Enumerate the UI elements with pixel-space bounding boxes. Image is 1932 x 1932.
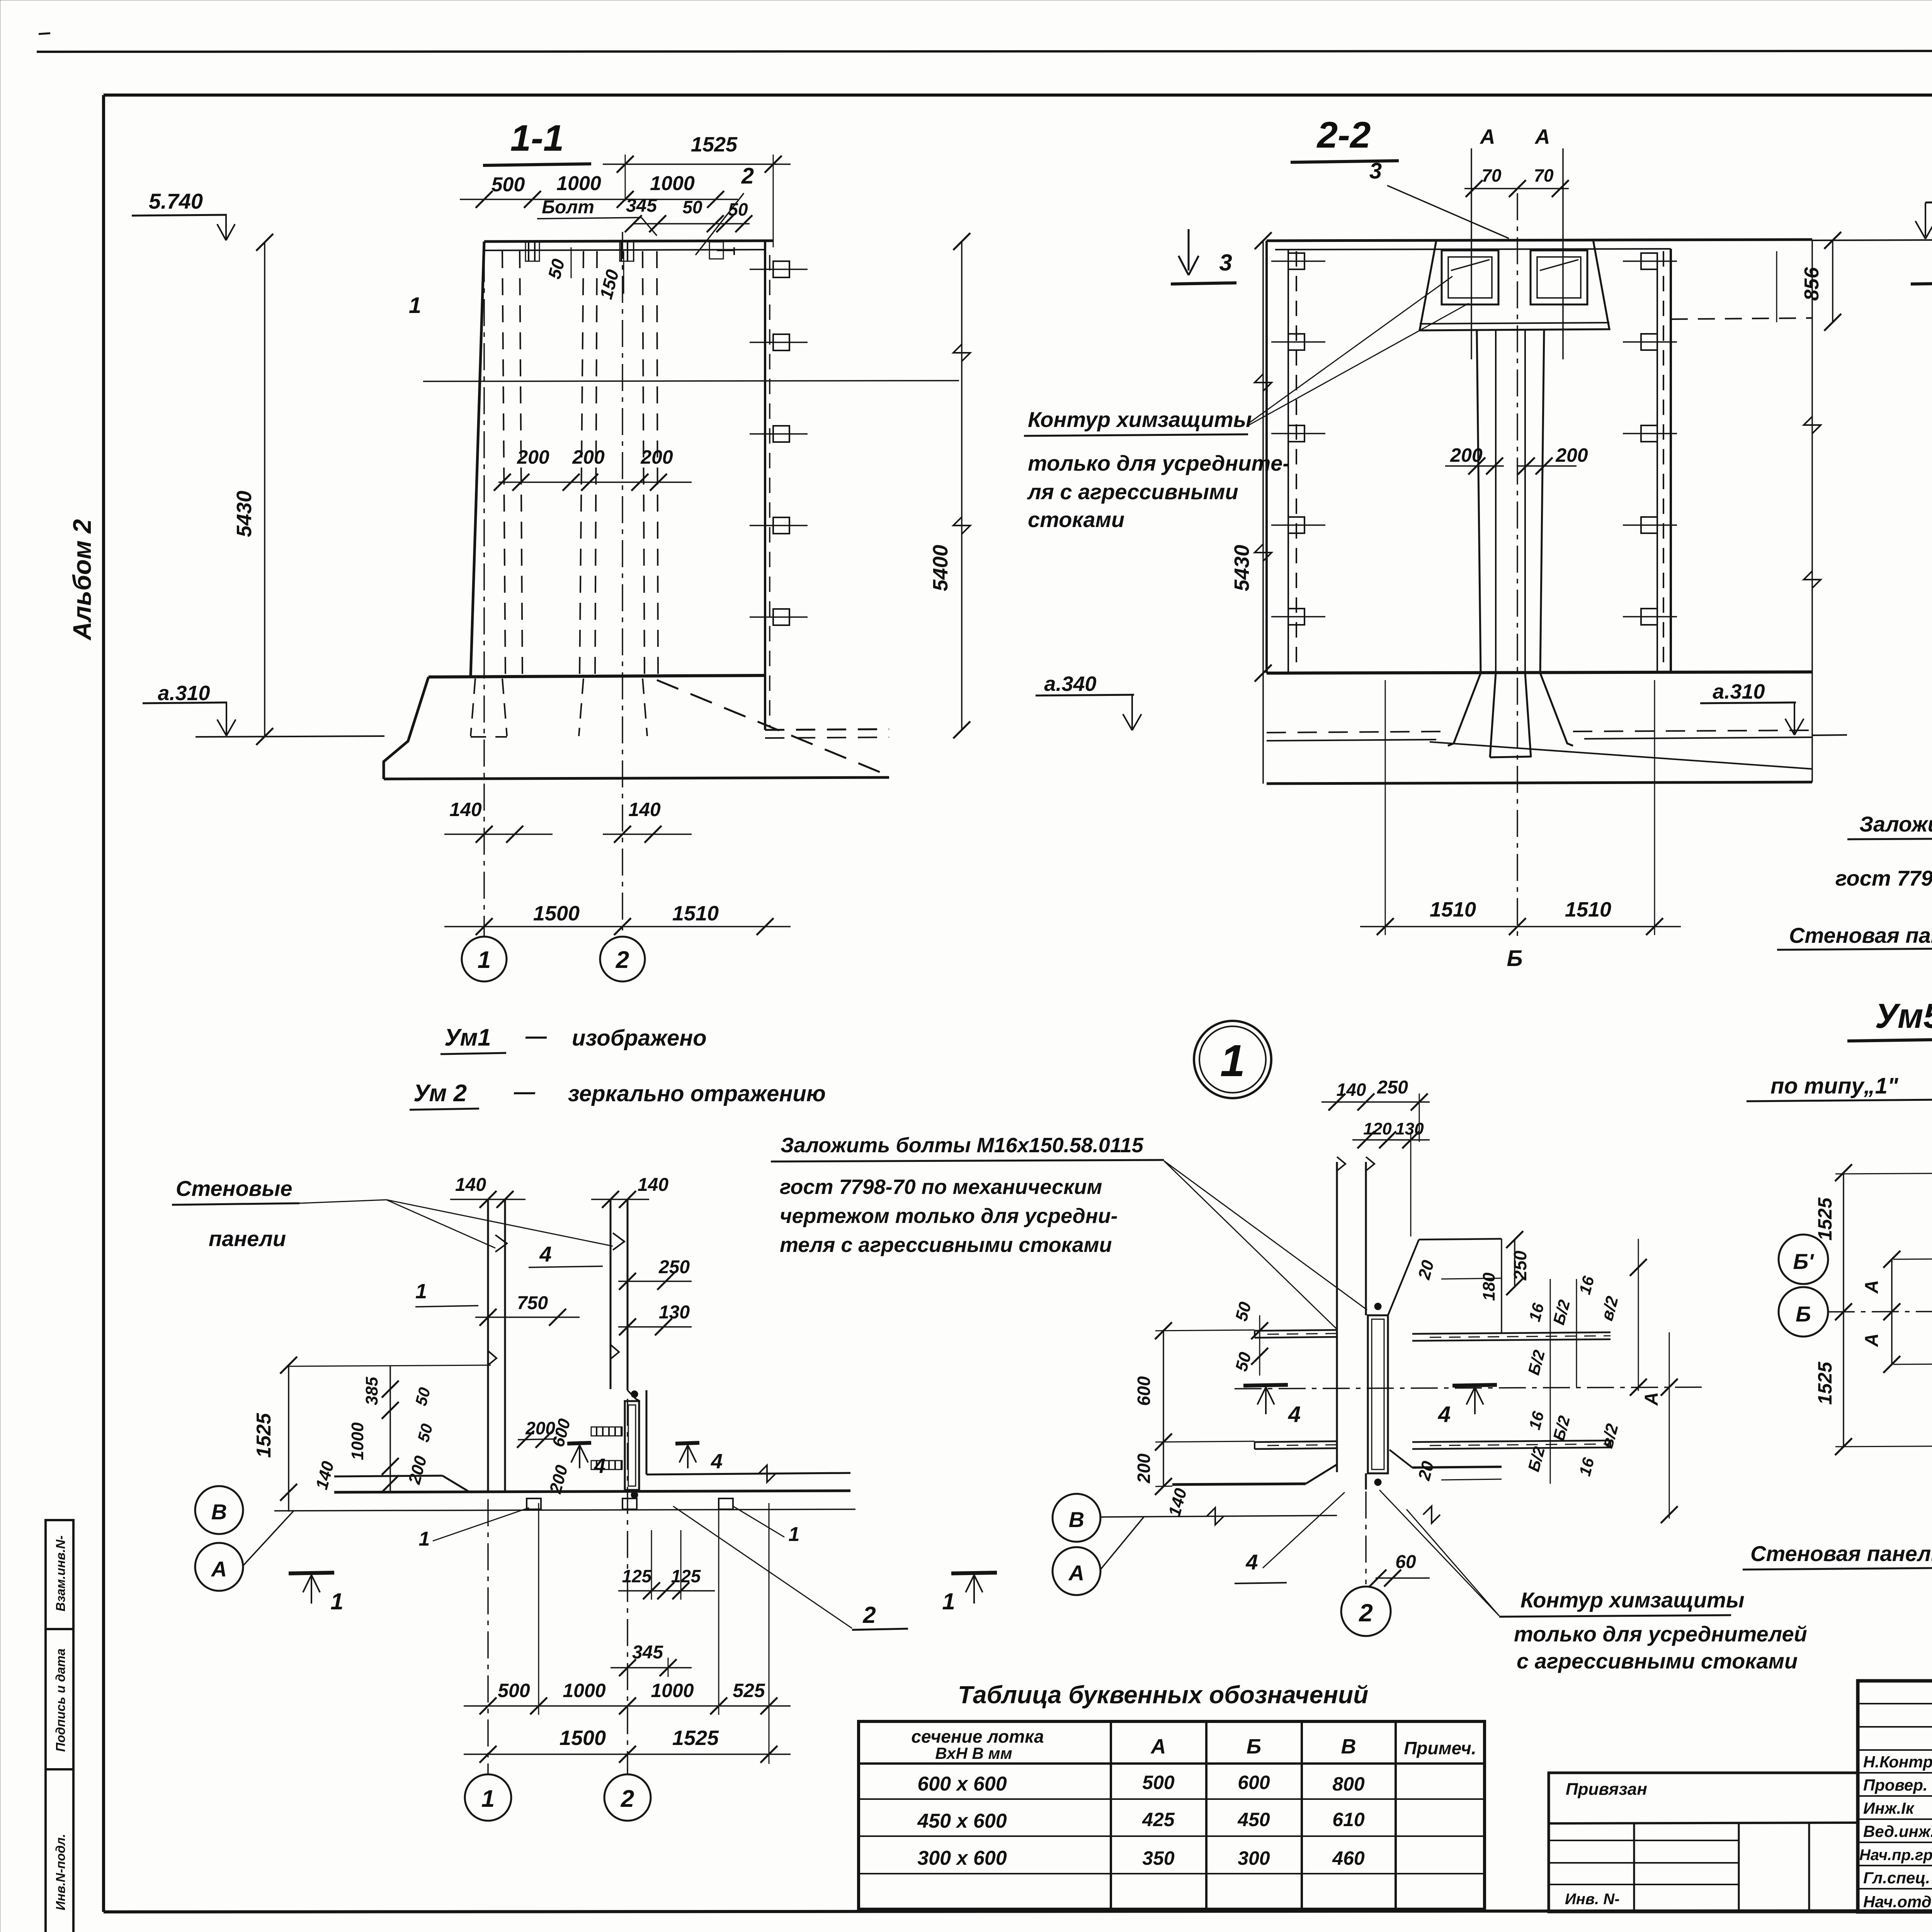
svg-text:Подпись и дата: Подпись и дата	[53, 1648, 68, 1752]
svg-text:610: 610	[1332, 1809, 1365, 1830]
svg-text:70: 70	[1481, 165, 1502, 185]
svg-text:1000: 1000	[651, 1680, 694, 1701]
svg-text:250: 250	[1377, 1077, 1408, 1098]
svg-text:1525: 1525	[253, 1413, 275, 1458]
svg-text:Б: Б	[1247, 1735, 1261, 1758]
svg-text:изображено: изображено	[572, 1026, 707, 1051]
svg-text:125: 125	[622, 1566, 652, 1586]
svg-text:600 х 600: 600 х 600	[917, 1773, 1007, 1795]
dim А А	[1891, 1259, 1893, 1364]
left wall outline (sloped)	[471, 241, 484, 676]
circles В А	[1053, 1494, 1100, 1542]
svg-text:5430: 5430	[1230, 545, 1253, 591]
svg-text:Стеновая панель: Стеновая панель	[1750, 1541, 1932, 1566]
svg-text:Ум 2: Ум 2	[413, 1080, 467, 1107]
right wall elevation w/ notches	[764, 241, 766, 730]
svg-text:250: 250	[658, 1257, 690, 1277]
svg-text:525: 525	[733, 1680, 765, 1701]
svg-text:Провер.: Провер.	[1863, 1776, 1928, 1794]
right wall panel	[610, 1199, 612, 1389]
dim 5430 vertical	[264, 242, 265, 737]
svg-text:4: 4	[539, 1242, 551, 1266]
svg-text:ВхН В мм: ВхН В мм	[935, 1744, 1012, 1762]
anchor hatched bars	[591, 1427, 622, 1436]
svg-text:3: 3	[1369, 158, 1382, 184]
central column	[1477, 330, 1481, 673]
svg-text:800: 800	[1332, 1773, 1365, 1795]
svg-text:1525: 1525	[672, 1726, 719, 1750]
svg-text:70: 70	[1534, 165, 1554, 185]
dim 5430 left vertical	[1262, 241, 1264, 784]
svg-text:1: 1	[789, 1523, 800, 1546]
svg-text:200: 200	[1134, 1453, 1154, 1483]
svg-text:1500: 1500	[560, 1726, 606, 1750]
svg-text:300 х 600: 300 х 600	[917, 1847, 1007, 1869]
svg-text:А: А	[1480, 125, 1495, 148]
svg-text:Взам.инв.N-: Взам.инв.N-	[53, 1536, 68, 1612]
svg-text:Н.Контр.: Н.Контр.	[1863, 1753, 1932, 1771]
svg-text:А: А	[1641, 1392, 1662, 1406]
axis dash-dot horizontal	[1235, 1387, 1702, 1389]
svg-text:1525: 1525	[1814, 1361, 1836, 1405]
svg-text:Б: Б	[1507, 946, 1522, 971]
svg-text:1000: 1000	[650, 172, 695, 195]
dim 1500 / 1510	[444, 926, 791, 927]
signature area rows	[1858, 1703, 1932, 1704]
svg-text:1: 1	[419, 1528, 430, 1550]
svg-text:В: В	[211, 1500, 227, 1524]
svg-text:Стеновая панель: Стеновая панель	[1789, 923, 1932, 947]
svg-text:А: А	[211, 1557, 227, 1581]
svg-text:Контур химзащиты: Контур химзащиты	[1520, 1588, 1745, 1612]
dim row 500/1000/1000	[460, 199, 738, 200]
svg-text:1525: 1525	[1814, 1197, 1836, 1240]
svg-text:2: 2	[741, 163, 754, 189]
axis Б	[1828, 1311, 1932, 1312]
svg-text:a.340: a.340	[1044, 672, 1096, 696]
svg-text:Стеновые: Стеновые	[176, 1176, 292, 1201]
svg-text:1000: 1000	[563, 1680, 605, 1701]
svg-text:1: 1	[478, 947, 491, 973]
svg-text:А: А	[1150, 1735, 1166, 1758]
detail 1 big circle	[1194, 1021, 1271, 1098]
left dim 1525 vertical	[288, 1365, 289, 1512]
svg-text:300: 300	[1238, 1847, 1270, 1869]
svg-text:1510: 1510	[1565, 898, 1611, 921]
svg-text:гост 7798-70 по механическим: гост 7798-70 по механическим чертежам	[1835, 866, 1932, 890]
svg-text:200: 200	[572, 446, 605, 468]
foundation	[429, 675, 765, 677]
section mark 3 (left, down arrow)	[1188, 229, 1190, 270]
svg-text:1510: 1510	[1430, 898, 1476, 921]
top slab	[1267, 240, 1812, 241]
svg-text:Привязан: Привязан	[1566, 1780, 1647, 1799]
lower left flare	[1172, 1484, 1306, 1485]
svg-text:140: 140	[455, 1175, 486, 1195]
svg-text:Таблица буквенных обозначе: Таблица буквенных обозначений	[958, 1681, 1368, 1709]
svg-text:1525: 1525	[691, 133, 738, 156]
svg-text:2: 2	[616, 947, 629, 973]
dim 5400 vertical	[961, 241, 963, 730]
upper flare	[1388, 1240, 1419, 1315]
axis line + plates	[274, 1509, 855, 1511]
top dim line of plan	[289, 1365, 491, 1366]
foundation 2-2	[1267, 672, 1812, 673]
left wall with notches	[1265, 241, 1268, 673]
top slab	[484, 241, 773, 241]
gate slots	[1442, 250, 1498, 304]
circled 2 below	[1365, 1492, 1367, 1584]
svg-text:140: 140	[628, 799, 661, 820]
cut marks 4 (600 bars)	[567, 1443, 591, 1444]
svg-text:5.740: 5.740	[149, 189, 203, 213]
svg-text:140: 140	[449, 799, 482, 820]
flag marks 4	[495, 1235, 507, 1252]
svg-text:140: 140	[1337, 1080, 1366, 1100]
right tall reference line	[1811, 240, 1813, 782]
svg-text:3: 3	[1219, 250, 1232, 276]
svg-text:стоками: стоками	[1028, 507, 1124, 532]
svg-text:А: А	[1534, 125, 1550, 148]
dim 1510 1510 bottom	[1360, 926, 1681, 927]
svg-text:1510: 1510	[672, 902, 719, 925]
svg-text:ля с агрессивными: ля с агрессивными	[1027, 480, 1238, 504]
svg-text:1: 1	[409, 293, 421, 318]
circles В А	[195, 1486, 243, 1534]
svg-text:Инв.N-подл.: Инв.N-подл.	[53, 1834, 68, 1910]
svg-text:В: В	[1341, 1735, 1356, 1758]
svg-text:140: 140	[638, 1175, 668, 1195]
svg-text:1: 1	[481, 1786, 495, 1812]
central divider head (trapezoid)	[1420, 240, 1609, 330]
svg-text:Ум5: Ум5	[1875, 997, 1932, 1036]
sheet frame	[104, 94, 1932, 97]
wall dashed form lines	[502, 251, 505, 675]
svg-text:Гл.спец.: Гл.спец.	[1863, 1869, 1930, 1887]
svg-text:Заложить болты М16х150.58.01: Заложить болты М16х150.58.0115	[781, 1134, 1144, 1157]
svg-text:Инж.Iк: Инж.Iк	[1863, 1799, 1915, 1817]
svg-text:120: 120	[1363, 1119, 1392, 1138]
svg-text:по типу„1": по типу„1"	[1770, 1073, 1899, 1099]
svg-text:200: 200	[640, 446, 673, 468]
svg-text:Заложить болты М16х150.58.01: Заложить болты М16х150.58.0115	[1859, 812, 1932, 836]
svg-text:500: 500	[492, 173, 525, 196]
left margin stamp boxes	[46, 1520, 73, 1932]
svg-text:180: 180	[1480, 1272, 1498, 1301]
dim row 1500/1525	[464, 1753, 791, 1755]
svg-text:1: 1	[415, 1280, 427, 1303]
svg-text:4: 4	[594, 1454, 605, 1478]
svg-text:125: 125	[671, 1566, 701, 1586]
svg-text:460: 460	[1332, 1847, 1365, 1869]
svg-text:a.310: a.310	[158, 682, 210, 705]
svg-text:А: А	[1862, 1333, 1882, 1347]
paper top edge line	[37, 51, 1932, 52]
svg-text:Примеч.: Примеч.	[1404, 1738, 1476, 1758]
svg-text:А: А	[1862, 1280, 1882, 1294]
dims 16 Б/2 В/2 right cluster	[1550, 1279, 1551, 1387]
svg-text:2: 2	[621, 1786, 634, 1812]
svg-text:зеркально отражению: зеркально отражению	[568, 1081, 826, 1106]
svg-text:600: 600	[1134, 1376, 1154, 1406]
svg-text:450 х 600: 450 х 600	[917, 1810, 1007, 1832]
left channel walls	[1255, 1330, 1337, 1331]
svg-text:500: 500	[498, 1680, 530, 1701]
svg-text:60: 60	[1395, 1552, 1416, 1572]
svg-text:1: 1	[330, 1588, 343, 1614]
svg-text:4: 4	[1438, 1402, 1451, 1427]
svg-text:5430: 5430	[233, 491, 256, 537]
svg-text:В: В	[1069, 1507, 1084, 1532]
axis circles 1 2	[487, 1499, 489, 1774]
svg-text:чертежом только для усред: чертежом только для усредни-	[780, 1204, 1118, 1228]
top-left small mark	[39, 33, 50, 34]
svg-text:теля с агрессивными стокам: теля с агрессивными стоками	[780, 1233, 1112, 1257]
right wall with notches	[1670, 249, 1672, 673]
svg-text:250: 250	[1510, 1250, 1530, 1281]
svg-text:Болт: Болт	[542, 197, 594, 218]
stacked rotated dims	[389, 1366, 391, 1492]
svg-text:гост 7798-70 по механическим: гост 7798-70 по механическим	[780, 1175, 1102, 1199]
svg-text:4: 4	[1288, 1402, 1301, 1427]
svg-text:385: 385	[362, 1377, 381, 1405]
axis lines + circles 1 2	[483, 255, 485, 937]
svg-text:200: 200	[1450, 444, 1483, 466]
foundation dashed under walls	[471, 679, 475, 736]
center axis	[1517, 193, 1518, 937]
svg-text:Нач.отд.: Нач.отд.	[1863, 1893, 1932, 1911]
svg-text:2-2: 2-2	[1316, 114, 1371, 156]
svg-text:4: 4	[711, 1450, 723, 1473]
cut mark 1 right	[951, 1573, 997, 1573]
embedded plates on slab	[526, 242, 539, 261]
dim 1525/1525 left	[1843, 1173, 1844, 1447]
svg-text:600: 600	[1238, 1772, 1270, 1793]
svg-text:только для усреднителей: только для усреднителей	[1514, 1622, 1807, 1646]
wall panel verticals	[1336, 1162, 1338, 1472]
svg-text:50: 50	[682, 197, 702, 217]
cut marks 4	[1243, 1385, 1288, 1386]
svg-text:—: —	[525, 1024, 547, 1048]
plan walls	[334, 1491, 850, 1492]
left dim chain 600/200	[1163, 1331, 1164, 1486]
svg-text:сечение лотка: сечение лотка	[911, 1726, 1044, 1747]
svg-text:—: —	[514, 1080, 536, 1104]
svg-text:350: 350	[1142, 1847, 1175, 1869]
svg-text:500: 500	[1142, 1772, 1175, 1793]
table grid	[859, 1721, 1485, 1909]
svg-text:панели: панели	[209, 1226, 286, 1251]
svg-text:450: 450	[1237, 1809, 1270, 1830]
svg-text:750: 750	[517, 1293, 548, 1313]
svg-text:a.310: a.310	[1713, 680, 1765, 703]
svg-text:130: 130	[659, 1302, 690, 1323]
svg-text:А: А	[1068, 1561, 1084, 1585]
svg-text:5400: 5400	[929, 545, 952, 591]
svg-text:Контур химзащиты: Контур химзащиты	[1028, 407, 1252, 432]
Привязан box	[1549, 1773, 1858, 1912]
svg-text:345: 345	[626, 196, 657, 216]
lower right flare	[1412, 1467, 1502, 1468]
svg-text:425: 425	[1142, 1809, 1175, 1830]
title block outer	[1858, 1681, 1932, 1912]
svg-text:200: 200	[517, 446, 549, 468]
dim 856 right	[1832, 240, 1833, 322]
svg-text:Альбом 2: Альбом 2	[68, 519, 96, 641]
svg-text:4: 4	[1245, 1550, 1258, 1574]
svg-text:Ум1: Ум1	[444, 1024, 491, 1051]
svg-text:Вед.инж.: Вед.инж.	[1863, 1822, 1932, 1840]
svg-text:Нач.пр.гр.: Нач.пр.гр.	[1859, 1847, 1932, 1864]
dim row 500/1000/1000/525	[464, 1705, 791, 1707]
svg-text:1-1: 1-1	[510, 117, 564, 159]
right channel walls	[1412, 1332, 1611, 1334]
left wall panel	[487, 1199, 489, 1492]
svg-text:1500: 1500	[533, 902, 580, 925]
svg-text:с агрессивными стоками: с агрессивными стоками	[1517, 1649, 1798, 1673]
svg-text:200: 200	[1555, 444, 1588, 466]
svg-text:2: 2	[1359, 1599, 1373, 1627]
svg-text:345: 345	[632, 1642, 663, 1663]
circles Б prime Б	[1779, 1235, 1828, 1284]
cut mark 1 left	[289, 1573, 334, 1573]
svg-text:Б': Б'	[1793, 1249, 1815, 1274]
svg-text:2: 2	[862, 1602, 876, 1628]
embedded plate	[1368, 1315, 1388, 1473]
svg-text:только для усреднитe-: только для усреднитe-	[1028, 451, 1290, 475]
corner embedded plate	[625, 1401, 639, 1490]
svg-text:Б: Б	[1796, 1302, 1811, 1326]
svg-text:1: 1	[1220, 1036, 1245, 1086]
svg-text:Инв. N-: Инв. N-	[1565, 1891, 1620, 1908]
svg-text:1: 1	[942, 1588, 955, 1614]
svg-text:1000: 1000	[348, 1422, 367, 1460]
svg-text:1000: 1000	[556, 172, 601, 195]
